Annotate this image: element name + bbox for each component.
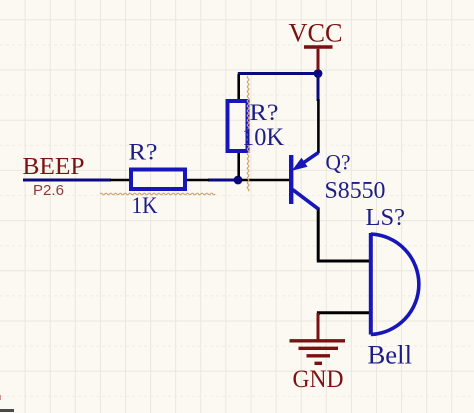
svg-text:GND: GND [293,366,344,393]
svg-text:VCC: VCC [289,19,343,48]
svg-text:P2.6: P2.6 [33,183,64,199]
svg-text:1K: 1K [132,193,158,219]
svg-text:S8550: S8550 [325,178,386,204]
svg-text:Q?: Q? [326,150,351,175]
svg-text:10K: 10K [242,124,284,151]
svg-text:Bell: Bell [368,340,413,370]
svg-text:R?: R? [129,140,158,166]
svg-text:R?: R? [250,100,279,126]
svg-text:LS?: LS? [366,205,406,231]
svg-text:BEEP: BEEP [23,154,85,180]
